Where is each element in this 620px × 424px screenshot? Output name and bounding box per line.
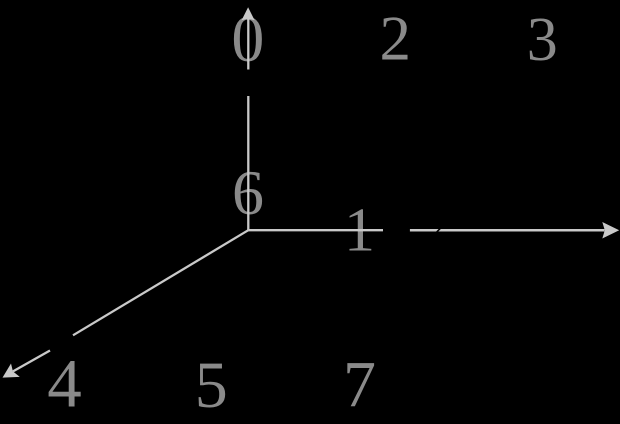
svg-text:4: 4 xyxy=(47,346,82,422)
wire vertical axis upper segment (through node 0) xyxy=(247,14,249,70)
svg-text:2: 2 xyxy=(379,4,411,74)
svg-text:3: 3 xyxy=(527,6,558,74)
svg-text:5: 5 xyxy=(195,349,228,422)
wire horizontal axis dash segment xyxy=(410,229,439,232)
arrowhead right axis xyxy=(602,222,619,239)
wire diagonal axis segment to arrow xyxy=(13,351,50,372)
svg-text:7: 7 xyxy=(343,348,376,421)
wire diagonal axis segment from origin xyxy=(73,230,248,335)
wire horizontal axis segment origin to gap (through node 1) xyxy=(248,229,383,231)
wire horizontal axis long segment to arrow xyxy=(438,229,604,232)
arrowhead diagonal axis (stealth) xyxy=(3,364,20,378)
wire vertical axis lower segment (node 6 to origin) xyxy=(247,96,249,230)
arrowhead up axis xyxy=(242,7,255,20)
